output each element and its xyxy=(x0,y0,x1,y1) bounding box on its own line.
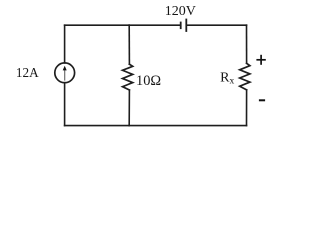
battery V1 (120V) long plate xyxy=(185,20,187,32)
wire left lower xyxy=(64,83,66,126)
battery V1 (120V) short plate xyxy=(180,23,182,29)
svg-text:12A: 12A xyxy=(16,65,39,80)
wire middle branch lower xyxy=(128,90,130,126)
wire left upper xyxy=(64,25,66,63)
wire top-right segment xyxy=(186,24,246,26)
wire right lower xyxy=(246,90,248,126)
wire top-middle segment xyxy=(129,24,181,26)
resistor R1 10ohm zigzag xyxy=(123,64,133,90)
current source I1 arrow tail xyxy=(64,70,66,81)
current source I1 arrow head xyxy=(63,66,67,71)
svg-text:120V: 120V xyxy=(165,4,196,19)
polarity plus sign xyxy=(256,55,265,65)
polarity minus sign xyxy=(259,99,265,101)
wire middle branch upper xyxy=(128,25,130,64)
svg-text:10Ω: 10Ω xyxy=(136,73,161,89)
svg-text:Rx: Rx xyxy=(220,70,234,86)
resistor Rx zigzag xyxy=(240,63,250,90)
wire bottom-left segment xyxy=(65,125,130,127)
wire right upper xyxy=(246,25,248,63)
wire bottom-right segment xyxy=(129,125,246,127)
wire top-left segment xyxy=(65,24,130,26)
current source I1 circle xyxy=(55,63,75,83)
